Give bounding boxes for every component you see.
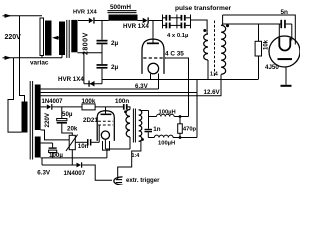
top row stubs <box>163 17 166 19</box>
svg-text:500mH: 500mH <box>110 4 131 11</box>
2D21 cathode line to primary bottom <box>105 148 130 150</box>
svg-text:100k: 100k <box>82 98 96 105</box>
2D21 anode bar <box>101 114 112 116</box>
diode D2 HVR 1X4 (points left) <box>84 81 102 87</box>
2D21 grid lead down <box>98 125 100 142</box>
svg-text:50µ: 50µ <box>62 111 73 118</box>
capacitor 2u upper <box>97 40 108 45</box>
S1 top wire with 1N4007 <box>41 106 47 108</box>
variac winding <box>40 18 44 56</box>
100u bottom lead <box>52 153 54 158</box>
svg-text:12.6V: 12.6V <box>204 89 221 96</box>
wire D3 to PFN <box>149 20 163 22</box>
bottom common rail <box>148 137 154 139</box>
trigger transformer primary coil <box>126 110 130 138</box>
capacitor 50u lead <box>61 107 63 119</box>
midpoint wire to HV secondary bottom <box>78 52 103 54</box>
capacitor 100u (electrolytic) <box>49 147 57 152</box>
HV transformer primary winding <box>59 22 65 56</box>
svg-text:470p: 470p <box>183 126 197 132</box>
vertical B return-to-bottom rail <box>196 80 198 138</box>
capacitor 5n <box>280 20 291 28</box>
wire 5n to magnetron right heater pin <box>291 24 293 41</box>
wire 100k to 2D21 anode and 100n <box>95 106 123 108</box>
resistor 10k lead bottom to return rail <box>258 56 260 80</box>
node junction dot <box>203 29 206 32</box>
HV primary bottom lead <box>61 55 63 58</box>
wire between 2u caps <box>101 44 103 64</box>
inductor 100uH (cathode choke) <box>154 135 173 137</box>
junction dot 470p top <box>179 115 182 118</box>
wire top 220V to variac <box>10 15 43 17</box>
2D21 cathode circle <box>101 131 109 139</box>
thyratron 2D21 envelope <box>97 111 114 141</box>
svg-text:extr. trigger: extr. trigger <box>126 177 160 184</box>
4C35 grid (dashed) <box>143 57 166 59</box>
wire 100n to trigger transformer primary <box>128 107 130 110</box>
4C35 grid wire to trigger <box>166 58 188 117</box>
top HV wire D1 to 500mH <box>95 20 109 22</box>
6.3V rail <box>41 88 159 90</box>
right rail <box>190 15 192 29</box>
wire sec-top node to grid choke <box>149 116 157 118</box>
secondary bottom polarity dot <box>141 138 144 141</box>
ground <box>281 85 292 87</box>
2D21 grid 1 (dashed) <box>98 120 113 122</box>
svg-text:HVR 1X4: HVR 1X4 <box>58 76 84 83</box>
wiper wire from S1 bottom <box>41 130 70 140</box>
capacitor 2u upper lead <box>101 21 103 40</box>
svg-text:220V: 220V <box>5 34 22 41</box>
variac core bar <box>45 21 52 56</box>
svg-text:100µH: 100µH <box>158 140 175 146</box>
HV transformer core <box>66 20 68 58</box>
polarity dot trigger primary <box>124 110 127 113</box>
svg-text:2µ: 2µ <box>111 40 119 47</box>
svg-text:HVR 1X4: HVR 1X4 <box>73 10 98 16</box>
magnetron cathode lead to ground <box>285 67 287 85</box>
magnetron heater left pin drop <box>278 24 280 40</box>
2D21 grid 2 (dashed) <box>98 124 113 126</box>
wire variac winding bottom to bottom wire <box>41 56 43 58</box>
external trigger connector <box>114 177 123 185</box>
left rail <box>162 15 164 29</box>
bias wire riser <box>41 158 43 165</box>
pulse transformer core (dashed) <box>214 21 216 77</box>
svg-text:4 C 35: 4 C 35 <box>165 50 184 57</box>
variac wiper arrow <box>52 32 61 40</box>
resistor 10k <box>255 41 261 56</box>
magnetron filament U <box>279 38 290 51</box>
bias wire with 1N4007 <box>42 164 77 166</box>
svg-text:1N4007: 1N4007 <box>64 170 86 177</box>
bias wire to trigger line <box>82 165 112 180</box>
svg-text:6.3V: 6.3V <box>135 83 149 90</box>
S2 bottom wire <box>41 157 107 159</box>
wire 1N4007 to 100k <box>52 106 82 108</box>
inductor 100uH grid choke <box>157 114 175 116</box>
LV transformer heater winding (top) <box>35 85 41 101</box>
svg-text:10k: 10k <box>263 39 269 50</box>
top HV wire 500mH to D3 <box>138 20 143 22</box>
wire bottom 220V to HV transformer primary bottom <box>10 57 63 59</box>
pulse transformer primary bottom lead <box>207 60 209 80</box>
capacitor 10n wire from pot <box>75 141 87 143</box>
middle connector <box>176 15 178 29</box>
svg-text:20k: 20k <box>67 126 78 133</box>
svg-text:pulse transformer: pulse transformer <box>175 5 231 12</box>
potentiometer 20k <box>66 135 78 151</box>
LV transformer secondary S1 220V <box>35 100 41 130</box>
riser sec-top node <box>148 111 150 129</box>
svg-text:2D21: 2D21 <box>83 117 98 124</box>
HV secondary top riser to top wire <box>79 19 89 22</box>
heater mid drop <box>106 150 108 158</box>
cap plates bottom row <box>165 23 167 29</box>
svg-text:1:4: 1:4 <box>210 72 218 78</box>
input terminal arrow top (220V line) <box>3 14 12 18</box>
wire drop to LV transformer primary (from bottom wire) <box>8 58 22 132</box>
svg-text:1:4: 1:4 <box>132 153 140 159</box>
svg-text:2800V: 2800V <box>83 32 90 55</box>
2D21 cathode lead <box>104 139 106 149</box>
inductor 500mH winding <box>109 15 138 21</box>
diode D1 HVR 1X4 <box>89 17 95 23</box>
LV transformer primary winding <box>22 102 28 133</box>
pulse transformer secondary coil <box>221 25 226 74</box>
resistor 10k lead top <box>258 24 260 41</box>
pulse transformer primary coil <box>204 34 208 60</box>
trigger transformer secondary coil <box>139 110 142 141</box>
2D21 heater leads <box>103 141 110 150</box>
junction dot 470p bottom <box>179 136 182 139</box>
svg-text:HVR 1X4: HVR 1X4 <box>123 23 149 30</box>
HV transformer secondary winding 2800V <box>71 20 77 52</box>
svg-text:1n: 1n <box>153 126 160 133</box>
6.3V return rail <box>41 92 197 94</box>
470p bottom lead <box>179 133 181 137</box>
thyratron 4C35 envelope <box>142 39 164 74</box>
heater rail B with polarity dot <box>223 23 281 25</box>
PFN capacitor bank 4 x 0.1u <box>163 15 191 29</box>
4C35 heater drop to 6.3V rail <box>158 74 160 90</box>
4C35 cathode drop to return rail <box>150 74 152 80</box>
capacitor 470p (box style) <box>178 124 183 134</box>
svg-text:variac: variac <box>30 60 49 67</box>
HV return rail <box>102 79 258 81</box>
capacitor 100n <box>123 104 128 110</box>
pot bottom lead <box>71 150 73 165</box>
wire choke to grid riser <box>174 116 188 118</box>
svg-text:100n: 100n <box>115 98 129 105</box>
heater rail A (top) <box>223 15 296 45</box>
input terminal arrow bottom <box>3 56 12 60</box>
S2 top wire <box>41 142 53 144</box>
10n to 2D21 grid <box>91 141 99 143</box>
capacitor 2u lower <box>97 64 108 69</box>
thyratron 2D21 anode lead <box>105 107 107 114</box>
capacitor 2u lower bottom lead <box>101 69 103 84</box>
diode 1N4007 (bias) <box>77 162 83 167</box>
svg-text:2µ: 2µ <box>111 64 119 71</box>
wire PFN to pulse transformer primary <box>191 20 208 34</box>
svg-text:220V: 220V <box>44 112 51 127</box>
50u bottom jog to pot top <box>62 124 73 136</box>
bottom rail continue <box>173 137 197 139</box>
LV transformer secondary S2 6.3V <box>35 137 41 158</box>
inductor 500mH core lines <box>108 10 137 11</box>
svg-text:6.3V: 6.3V <box>37 169 51 176</box>
capacitor 1n <box>145 129 153 132</box>
12.6V rail <box>41 75 221 96</box>
svg-text:4 x 0.1µ: 4 x 0.1µ <box>167 33 189 39</box>
1n bottom lead <box>147 132 149 137</box>
diode 1N4007 (anode supply) <box>47 104 53 110</box>
LV transformer core <box>29 81 31 160</box>
resistor 100k <box>82 104 95 110</box>
trigger secondary top jog <box>139 109 149 112</box>
trigger primary bottom lead <box>129 137 131 149</box>
trigger transformer core <box>132 109 134 143</box>
thyratron 4C35 anode lead <box>152 21 154 43</box>
secondary bottom drop wire <box>83 53 85 84</box>
svg-text:4J50: 4J50 <box>265 64 279 71</box>
bottom row stubs <box>163 24 166 26</box>
100u cap top lead <box>52 143 54 147</box>
cap plates top row <box>165 15 167 21</box>
4C35 anode bar <box>147 43 159 45</box>
secondary top lead to heater rail A <box>221 15 223 25</box>
4C35 cathode circle <box>148 63 159 74</box>
diode D3 HVR 1X4 <box>143 17 149 23</box>
wire drop to LV transformer primary (from top wire) <box>20 16 25 102</box>
trigger secondary bottom to ext trigger <box>118 141 141 179</box>
capacitor 10n <box>87 139 91 145</box>
capacitor 50u (electrolytic) <box>57 119 67 124</box>
svg-text:5n: 5n <box>281 9 289 16</box>
capacitor 470p lead top <box>179 117 181 124</box>
svg-text:1N4007: 1N4007 <box>42 99 64 105</box>
magnetron anode bar <box>278 58 293 60</box>
magnetron 4J50 envelope <box>269 36 300 67</box>
